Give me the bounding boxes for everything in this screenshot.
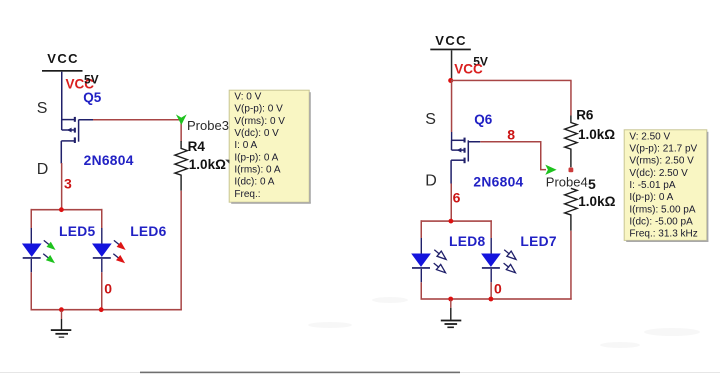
probe Probe3 arrow (green, down) [176, 114, 187, 125]
svg-text:VCC: VCC [435, 33, 467, 48]
wire LED5 anode drop (red) [31, 209, 33, 229]
ground symbol (left) bars [51, 329, 72, 331]
junction dot (LED7 cathode) [489, 297, 494, 302]
wire LED7 cathode stub (navy) [491, 269, 492, 283]
transistor Q5 body arrow [67, 128, 72, 133]
junction dot (Q5 drain to rail) [59, 207, 64, 212]
svg-text:Q5: Q5 [83, 90, 102, 105]
junction dot (VCC node, right) [448, 78, 453, 83]
wire Q6 source stub (navy) [451, 132, 452, 141]
measurement box (right, yellow) [624, 130, 707, 241]
wire gate net to probe corner (red) [480, 141, 541, 143]
svg-text:I(p-p): 0 A: I(p-p): 0 A [629, 192, 673, 203]
svg-text:LED7: LED7 [520, 234, 556, 249]
svg-text:VCC: VCC [454, 62, 483, 77]
svg-text:5V: 5V [84, 73, 99, 87]
svg-text:Freq.: 31.3 kHz: Freq.: 31.3 kHz [629, 229, 697, 240]
transistor Q6 body arrow [457, 148, 462, 153]
wire LED7 anode stub (navy) [491, 238, 492, 254]
svg-text:S: S [425, 111, 436, 128]
LED8 triangle [411, 254, 431, 267]
svg-text:R4: R4 [188, 139, 206, 154]
svg-text:2N6804: 2N6804 [84, 153, 134, 168]
svg-text:6: 6 [453, 190, 461, 206]
measurement box (left, yellow) [229, 90, 309, 202]
transistor Q6 symbol (MOSFET) [451, 140, 468, 183]
svg-text:LED8: LED8 [449, 234, 485, 249]
wire VCC to R6 (red horizontal) [451, 80, 572, 82]
wire LED7 cathode down (red) [490, 282, 492, 299]
LED5 emission arrows (green) [43, 240, 55, 263]
svg-text:Probe3: Probe3 [187, 118, 229, 133]
svg-text:1.0kΩ: 1.0kΩ [578, 194, 615, 209]
probe Probe4 arrow (green, right) [545, 165, 556, 175]
wire VCC stem (black) [451, 50, 453, 80]
svg-text:D: D [425, 173, 437, 190]
svg-text:LED5: LED5 [59, 224, 95, 239]
wire top rail of LED loop (net 6) [421, 220, 492, 222]
measurement box text (left) [234, 92, 285, 200]
wire Q6 gate stub (navy) [468, 141, 480, 143]
svg-text:V(rms): 0 V: V(rms): 0 V [234, 116, 285, 127]
junction dot (LED6 cathode, left) [99, 307, 104, 312]
svg-text:I(dc): -5.00 pA: I(dc): -5.00 pA [629, 216, 693, 227]
svg-text:V: 0 V: V: 0 V [234, 92, 261, 103]
LED6 emission arrows (red) [113, 240, 125, 263]
wire LED8 cathode stub (navy) [421, 269, 422, 283]
LED6 cathode bar [93, 257, 111, 259]
resistor R6 body (zigzag) [565, 116, 577, 168]
svg-text:1.0kΩ: 1.0kΩ [578, 127, 615, 142]
svg-text:I(rms): 0 A: I(rms): 0 A [234, 165, 280, 176]
resistor R5 body (zigzag) [565, 188, 577, 231]
wire Q5 gate to Probe3 (navy stub) [79, 119, 94, 121]
svg-text:I(dc): 0 A: I(dc): 0 A [234, 177, 274, 188]
transistor Q6 channel segments [457, 138, 466, 164]
resistor R4 body (zigzag) [175, 141, 187, 191]
svg-text:R6: R6 [576, 108, 594, 123]
svg-text:S: S [37, 100, 48, 117]
transistor Q5 symbol (MOSFET) [61, 120, 78, 164]
wire LED8 anode stub (navy) [421, 238, 422, 254]
wire bottom rail (net 0, right) [421, 298, 572, 300]
wire corner down to Probe4 (red) [540, 141, 542, 169]
svg-text:V(dc): 2.50 V: V(dc): 2.50 V [629, 168, 688, 179]
measurement box pointer tick [225, 160, 229, 164]
wire net to R4 (red, horizontal) [93, 119, 182, 121]
svg-text:I(rms): 5.00 pA: I(rms): 5.00 pA [629, 204, 695, 215]
wire top rail of LED loop (net 3) [31, 209, 103, 211]
wire Q6 drain down (red, net 6) [451, 184, 453, 222]
LED5 cathode bar [23, 257, 41, 259]
svg-text:V(p-p): 0 V: V(p-p): 0 V [234, 104, 283, 115]
ground symbol (left) stem red [61, 311, 62, 320]
wire LED8 anode drop (red) [421, 220, 423, 238]
svg-text:1.0kΩ: 1.0kΩ [189, 157, 226, 172]
resistor R6 top lead (red) [570, 81, 572, 116]
svg-text:0: 0 [104, 280, 112, 296]
svg-text:V: 2.50 V: V: 2.50 V [629, 131, 670, 142]
wire LED5 anode stub (navy) [31, 228, 32, 244]
LED7 emission arrows (outline) [504, 250, 516, 273]
measurement box text (right) [629, 131, 697, 239]
LED7 cathode bar [482, 267, 500, 269]
svg-text:0: 0 [494, 281, 502, 297]
ground symbol (right) stem red [450, 300, 451, 308]
power VCC (left) bar [42, 70, 83, 72]
wire LED7 anode drop (red) [490, 220, 492, 238]
wire probe stub (red) [540, 169, 546, 171]
wire R5 bottom to rail (red) [570, 231, 572, 300]
svg-text:8: 8 [507, 126, 515, 142]
wire bottom rail (net 0, left) [31, 309, 182, 311]
ground symbol (right) bars [441, 320, 462, 322]
LED6 triangle [92, 244, 112, 257]
wire Q5 drain down (red part, net 3) [61, 163, 63, 210]
svg-text:Q6: Q6 [474, 112, 493, 127]
wire LED6 cathode down (red) [101, 272, 103, 310]
svg-text:LED6: LED6 [130, 224, 166, 239]
wire corner down to R4 [180, 120, 182, 142]
wire VCC stem to Q5 source [61, 72, 63, 121]
svg-text:3: 3 [64, 175, 72, 191]
junction dot (R6/R5 node 5) [569, 168, 574, 173]
bottom separator line [0, 372, 720, 373]
svg-text:Freq.:: Freq.: [234, 189, 260, 200]
ground symbol (left) stem black [61, 319, 62, 330]
ground symbol (right) stem black [450, 308, 451, 320]
wire LED6 anode drop (red) [101, 209, 103, 229]
svg-text:Probe4: Probe4 [546, 174, 588, 189]
LED7 triangle [481, 254, 501, 267]
svg-text:2N6804: 2N6804 [473, 175, 523, 190]
faint watermark smudges (bottom right) [308, 297, 700, 348]
svg-text:I: 0 A: I: 0 A [234, 140, 257, 151]
svg-text:VCC: VCC [47, 51, 79, 66]
wire R4 bottom to rail (red) [180, 191, 182, 310]
svg-text:5: 5 [588, 176, 596, 192]
svg-text::: : [584, 178, 587, 190]
svg-text:V(dc): 0 V: V(dc): 0 V [234, 128, 279, 139]
wire LED5 cathode down (red) [31, 272, 33, 310]
junction dot (ground tap, right) [448, 297, 453, 302]
wire LED5 cathode stub (navy) [31, 259, 32, 273]
junction dot (Q6 drain to rail) [449, 219, 454, 224]
transistor Q5 channel segments [67, 117, 76, 143]
wire LED6 anode stub (navy) [101, 228, 102, 244]
svg-text:I: -5.01 pA: I: -5.01 pA [629, 180, 675, 191]
LED8 cathode bar [412, 267, 430, 269]
wire VCC down to Q6 source (red) [451, 81, 453, 133]
wire LED8 cathode down (red) [421, 282, 423, 299]
wire LED6 cathode stub (navy) [101, 259, 102, 273]
power VCC (right) bar [430, 49, 471, 51]
svg-text:V(rms): 2.50 V: V(rms): 2.50 V [629, 156, 694, 167]
svg-text:D: D [37, 161, 49, 178]
LED8 emission arrows (outline) [434, 250, 446, 273]
junction dot (ground tap, left) [59, 307, 64, 312]
LED5 triangle [22, 244, 42, 257]
svg-text:I(p-p): 0 A: I(p-p): 0 A [234, 152, 278, 163]
svg-text:V(p-p): 21.7 pV: V(p-p): 21.7 pV [629, 144, 697, 155]
